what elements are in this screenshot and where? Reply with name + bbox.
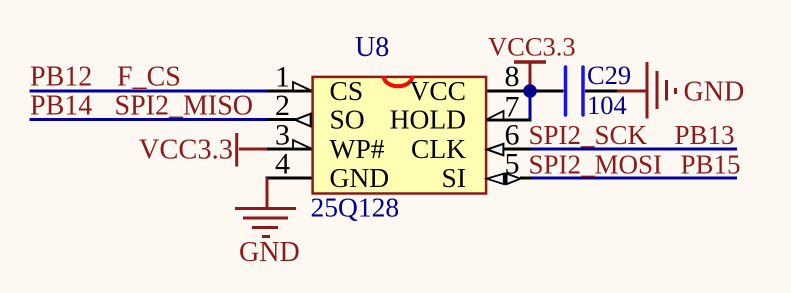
capacitor C29 plate left <box>564 67 568 115</box>
pin 2 output arrow <box>295 114 311 127</box>
svg-text:2: 2 <box>275 89 290 122</box>
power stub VCC3.3 right vertical <box>529 62 532 88</box>
pin 3 input arrow <box>293 140 311 149</box>
svg-text:8: 8 <box>505 60 520 93</box>
svg-text:CS: CS <box>330 75 364 106</box>
svg-text:GND: GND <box>330 162 390 193</box>
pin 5 bidir bar <box>504 173 506 185</box>
pin 6 input arrow <box>487 144 503 156</box>
svg-text:VCC: VCC <box>409 75 466 106</box>
power bar VCC3.3 right (dark red T bar) <box>514 60 546 64</box>
pin 2 wire (black) <box>267 118 296 121</box>
capacitor C29 plate right <box>581 67 585 115</box>
svg-text:PB12: PB12 <box>30 62 92 93</box>
pin 4 wire (black) <box>266 177 313 180</box>
svg-text:SPI2_SCK: SPI2_SCK <box>529 120 648 150</box>
svg-text:5: 5 <box>505 148 520 181</box>
svg-text:PB14: PB14 <box>30 91 92 122</box>
pin 3 wire (black) <box>267 148 312 151</box>
pin 6 wire (black) <box>504 148 532 151</box>
pin 1 input arrow <box>293 82 311 91</box>
svg-text:SO: SO <box>330 104 365 135</box>
svg-text:PB15: PB15 <box>680 150 740 180</box>
svg-text:GND: GND <box>239 237 300 268</box>
wire capacitor to right ground (dark red) <box>617 90 646 93</box>
svg-text:F_CS: F_CS <box>117 62 181 93</box>
svg-text:CLK: CLK <box>411 133 466 164</box>
wire net SPI2_SCK (blue) pin6 <box>530 148 737 151</box>
pin 8 wire (black) <box>485 90 564 93</box>
pin 1 wire (black) <box>267 90 312 93</box>
svg-text:U8: U8 <box>355 32 389 63</box>
junction node dot <box>523 84 537 98</box>
chip notch arc <box>384 76 413 86</box>
svg-text:C29: C29 <box>587 60 631 90</box>
svg-text:HOLD: HOLD <box>390 104 466 135</box>
power bar VCC3.3 left (dark red vertical bar) <box>235 133 238 167</box>
svg-text:SI: SI <box>442 162 466 193</box>
pin 5 bidir arrow left <box>487 174 504 185</box>
svg-text:VCC3.3: VCC3.3 <box>488 32 576 62</box>
wire net SPI2_MOSI (blue) pin5 <box>530 177 737 180</box>
chip U8 body <box>313 77 487 194</box>
svg-text:WP#: WP# <box>330 133 385 164</box>
pin 5 wire (black) <box>520 177 531 180</box>
pin 5 bidir arrow right <box>507 174 521 185</box>
svg-text:4: 4 <box>275 147 290 180</box>
ground symbol bottom <box>235 209 296 237</box>
svg-text:SPI2_MISO: SPI2_MISO <box>115 91 253 122</box>
svg-text:104: 104 <box>587 90 627 120</box>
wire cap right plate to gnd (black part) <box>585 90 617 93</box>
svg-text:GND: GND <box>684 77 745 108</box>
power wire VCC3.3 to pin 3 (dark red) <box>239 148 267 151</box>
wire junction-to-pin7 vertical (blue) <box>529 91 532 120</box>
wire net SPI2_MISO (blue) pin2 <box>30 118 268 121</box>
wire pin4 to ground (dark red vertical) <box>266 178 269 208</box>
svg-text:VCC3.3: VCC3.3 <box>139 134 233 165</box>
svg-text:SPI2_MOSI: SPI2_MOSI <box>529 150 663 180</box>
svg-text:PB13: PB13 <box>674 120 734 150</box>
svg-text:25Q128: 25Q128 <box>311 192 400 223</box>
ground symbol right (rotated) <box>647 62 676 119</box>
pin 7 wire (black) <box>485 119 532 122</box>
pin 7 input arrow <box>487 111 504 120</box>
wire net F_CS (blue) pin1 <box>30 90 268 93</box>
